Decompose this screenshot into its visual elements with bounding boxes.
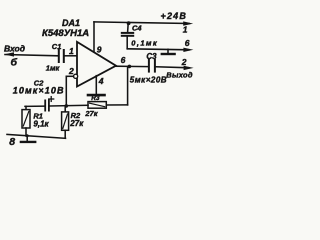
svg-text:С4: С4 [132, 24, 142, 33]
wire pin2 drop [65, 76, 67, 106]
svg-text:DA1: DA1 [62, 18, 80, 28]
ground pin4 [88, 94, 105, 97]
capacitor C3 [149, 60, 155, 72]
wire feedback to R3 [106, 104, 127, 106]
wire pin2 horizontal [66, 75, 73, 77]
svg-text:10мк×10В: 10мк×10В [13, 85, 65, 95]
junction dot R1 bottom [26, 134, 29, 137]
svg-text:0,1мк: 0,1мк [131, 38, 158, 47]
resistor R3 [88, 102, 106, 109]
resistor R2 [64, 106, 66, 112]
terminal arrow 6 [183, 48, 193, 52]
capacitor C2 [45, 100, 49, 110]
junction dot node [65, 104, 69, 108]
wire output right [156, 67, 189, 68]
svg-text:К548УН1А: К548УН1А [42, 28, 89, 39]
svg-text:27к: 27к [69, 119, 84, 128]
svg-text:R3: R3 [91, 95, 100, 102]
svg-text:9,1к: 9,1к [33, 120, 49, 129]
svg-text:2: 2 [181, 57, 187, 67]
capacitor C4 [127, 23, 130, 32]
terminal arrow output [184, 66, 194, 70]
svg-text:6: 6 [121, 55, 126, 65]
terminal arrow +24V [183, 21, 193, 25]
svg-text:1: 1 [183, 24, 188, 34]
wire node line right [50, 104, 88, 107]
svg-text:1: 1 [69, 46, 74, 56]
svg-text:1мк: 1мк [46, 63, 61, 72]
svg-text:б: б [11, 57, 18, 69]
svg-text:Выход: Выход [166, 70, 193, 79]
wire +24V rail [94, 22, 189, 24]
plus sign C2 [49, 97, 54, 102]
svg-text:С3: С3 [146, 52, 157, 61]
resistor R1 [25, 106, 27, 109]
pin 2 inverting bubble [74, 74, 78, 78]
svg-text:+24В: +24В [161, 11, 188, 21]
junction dot C4 top [127, 21, 131, 25]
wire bottom rail [7, 134, 66, 138]
wire node line left [25, 105, 45, 107]
wire input [5, 55, 58, 56]
wire pin9 up [93, 22, 95, 52]
svg-text:Вход: Вход [4, 43, 25, 53]
ground bottom [26, 136, 28, 141]
svg-text:5мк×20В: 5мк×20В [130, 75, 167, 84]
svg-text:4: 4 [98, 76, 104, 86]
svg-text:С1: С1 [52, 42, 62, 51]
wire pin4 down [95, 76, 97, 94]
op-amp DA1 [77, 42, 116, 87]
capacitor C1 [59, 50, 64, 62]
junction dot output [128, 65, 132, 69]
wire output [116, 65, 149, 67]
svg-text:2: 2 [68, 66, 74, 76]
wire rail 6 [127, 49, 189, 50]
wire feedback vertical [127, 66, 129, 105]
svg-text:9: 9 [97, 44, 102, 54]
terminal arrow input [4, 52, 14, 56]
svg-text:6: 6 [185, 38, 190, 48]
svg-text:27к: 27к [84, 109, 98, 118]
ground on rail 6 [167, 49, 169, 53]
wire C1 to op-amp [65, 55, 77, 57]
svg-text:8: 8 [9, 136, 15, 148]
